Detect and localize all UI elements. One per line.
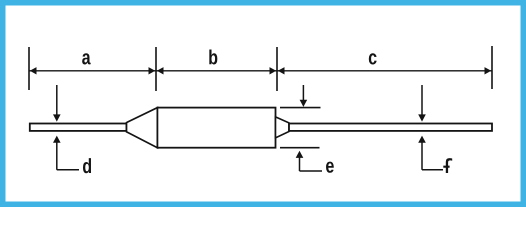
f down arrow xyxy=(421,85,423,115)
f leader xyxy=(422,169,443,171)
right cone (taper to lead) xyxy=(276,117,290,138)
d down arrow xyxy=(56,85,58,115)
e down arrow xyxy=(302,85,304,101)
arrowhead right at tick 277 xyxy=(270,67,277,74)
label c xyxy=(369,53,377,64)
right lead wire xyxy=(289,124,492,131)
left cone (taper to body) xyxy=(127,108,158,148)
e up arrow xyxy=(299,157,301,172)
d up arrow xyxy=(56,141,58,170)
label e xyxy=(326,162,334,173)
arrowhead right at tick 156 xyxy=(149,67,156,74)
e top extension line xyxy=(280,107,321,109)
fuse body xyxy=(157,108,275,148)
label b xyxy=(209,49,217,64)
left lead wire xyxy=(30,124,127,131)
d leader xyxy=(57,169,79,171)
arrowhead left at tick 277 xyxy=(278,67,285,74)
label d xyxy=(83,158,91,173)
dimension line (a/b/c) xyxy=(29,70,492,72)
extension tick at x=29 (lead start) xyxy=(28,47,30,90)
arrowhead left at tick 29 xyxy=(30,67,37,74)
e leader xyxy=(300,170,323,172)
extension tick at x=492 (lead end) xyxy=(491,46,493,89)
label f xyxy=(443,158,452,173)
arrowhead left at tick 156 xyxy=(157,67,164,74)
e bottom extension line xyxy=(280,147,320,149)
arrowhead right at tick 492 xyxy=(485,67,492,74)
f up arrow xyxy=(421,141,423,170)
extension tick at x=277 (b/c boundary) xyxy=(276,47,278,91)
extension tick at x=156 (a/b boundary) xyxy=(155,47,157,91)
label a xyxy=(82,53,91,64)
